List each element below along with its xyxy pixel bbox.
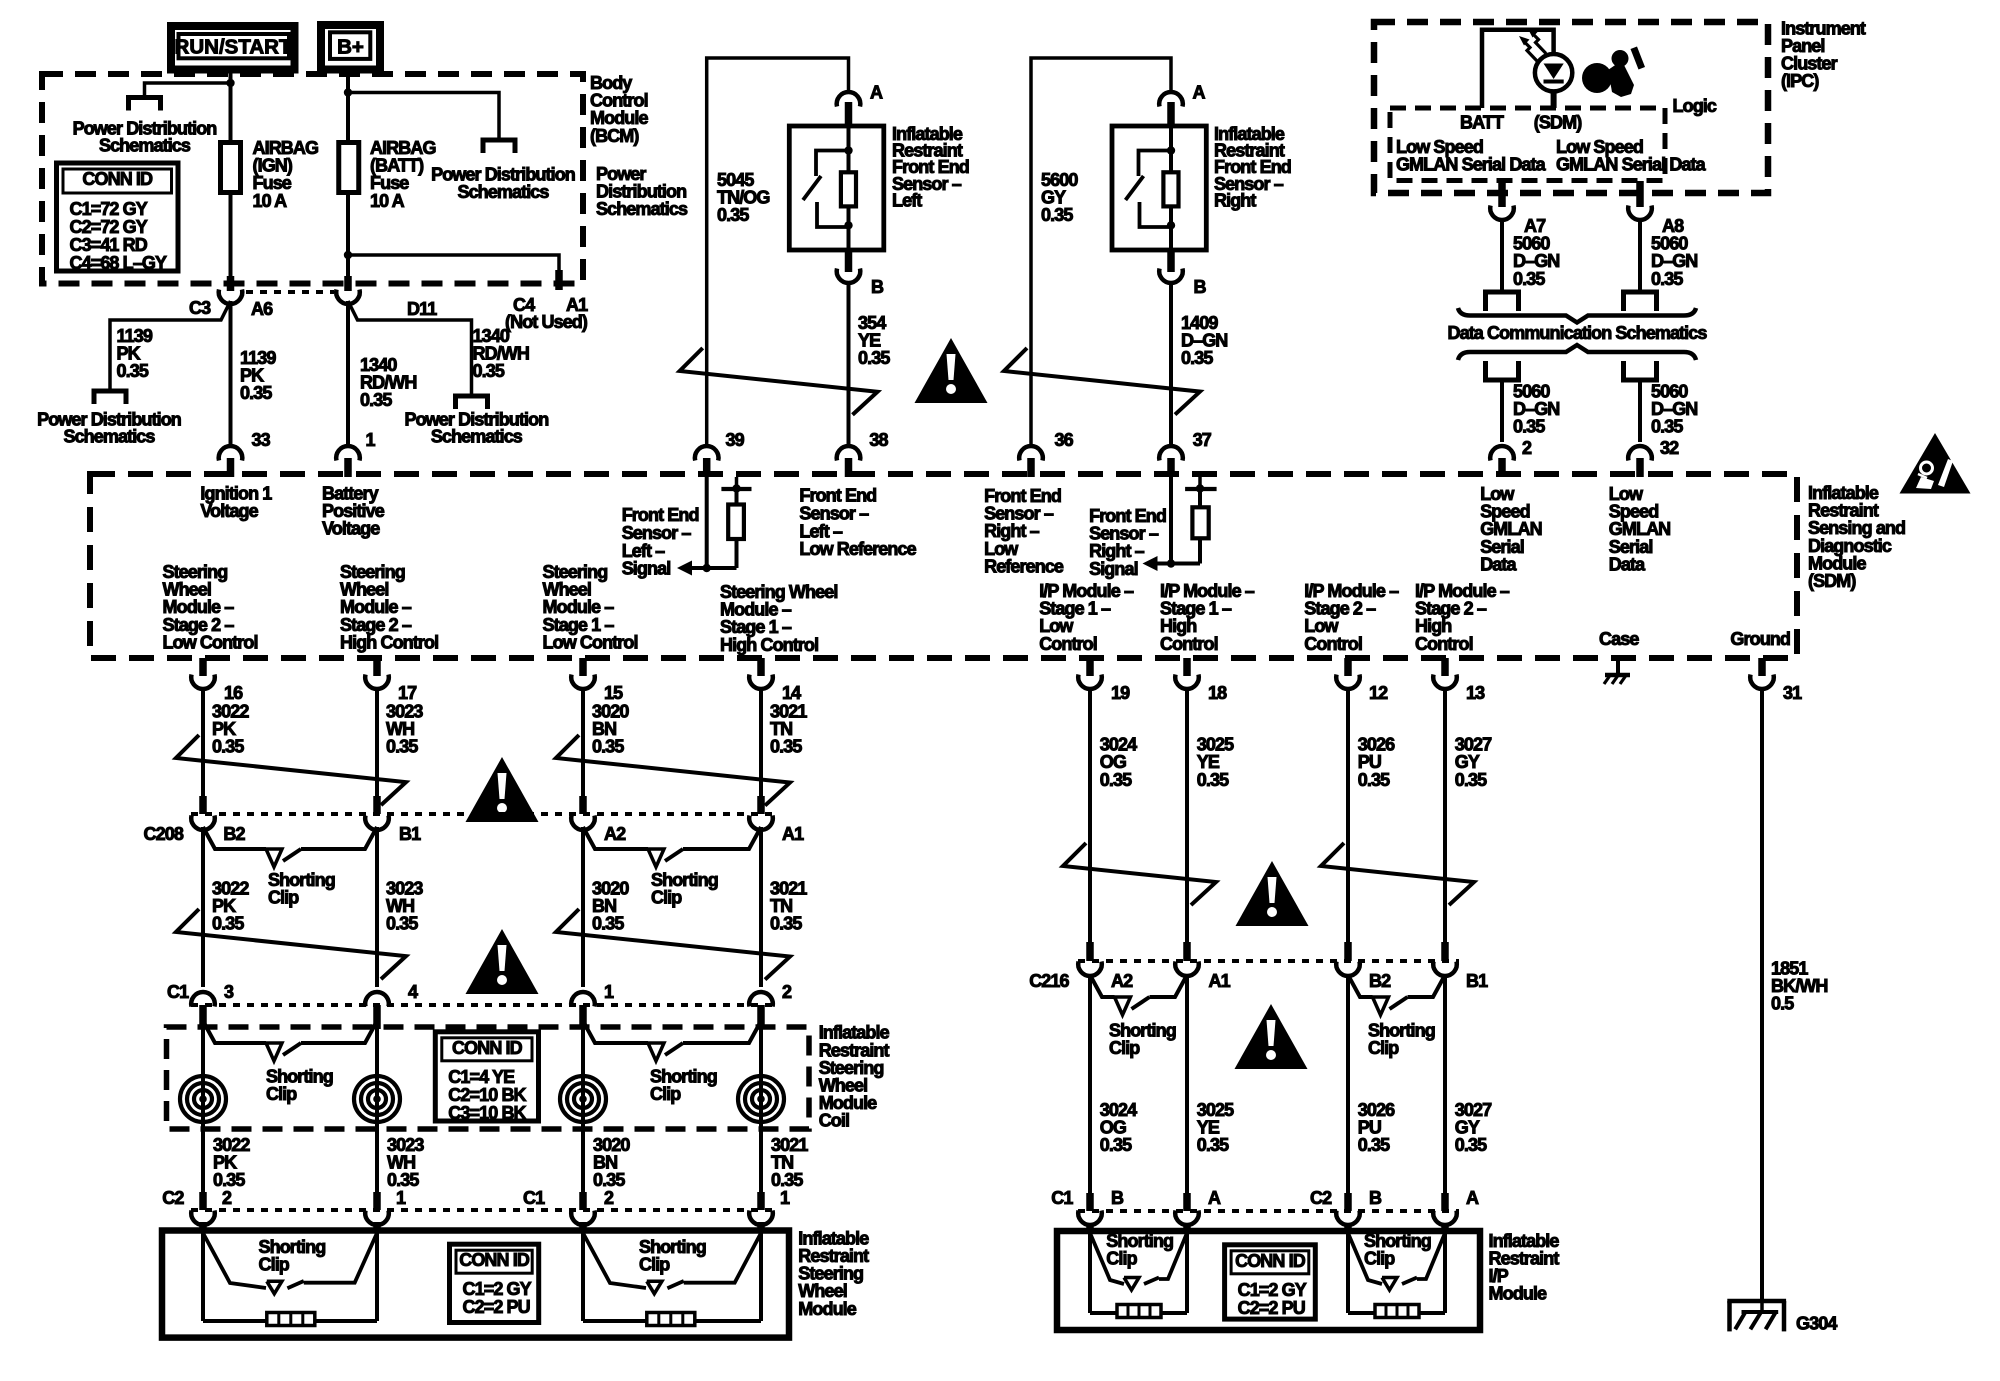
wire 3027 GY from SDM — [1443, 689, 1447, 942]
svg-text:32: 32 — [1660, 438, 1679, 458]
node: ign feed junction — [226, 79, 234, 87]
svg-text:CONN ID: CONN ID — [459, 1250, 530, 1270]
svg-text:A: A — [1193, 82, 1206, 102]
svg-text:B: B — [871, 277, 884, 297]
wire coil wire 2 through coil — [375, 1028, 379, 1192]
wire 3022 PK from SDM — [201, 689, 205, 796]
wire: B+ to fuse — [346, 66, 350, 143]
cut symbols I/P — [1063, 843, 1216, 905]
IPC pin A7 — [1498, 181, 1506, 207]
connector D11 — [344, 276, 352, 291]
svg-text:31: 31 — [1783, 683, 1802, 703]
I/P squib circuit left pair — [1088, 1233, 1092, 1313]
SDM pin 13 connector — [1441, 658, 1449, 676]
warning triangle (sensors) — [915, 338, 988, 403]
svg-text:37: 37 — [1193, 430, 1212, 450]
svg-text:18: 18 — [1208, 683, 1227, 703]
wire 3027 GY below C216 — [1443, 974, 1447, 1193]
front end sensor left wiring — [707, 58, 849, 446]
connector I/P pin C1-B — [1086, 1193, 1094, 1211]
connector C216 pin A2 — [1086, 942, 1094, 961]
data communication braces — [1458, 308, 1696, 323]
svg-text:2: 2 — [782, 982, 792, 1002]
svg-text:3: 3 — [224, 982, 234, 1002]
svg-text:Logic: Logic — [1673, 96, 1717, 116]
svg-text:CONN ID: CONN ID — [1235, 1251, 1306, 1271]
wire 3023 WH from SDM — [375, 689, 379, 796]
wire: branch to C4 (not used) — [348, 255, 559, 272]
fuse AIRBAG (BATT) 10A — [339, 143, 359, 193]
svg-text:A2: A2 — [604, 824, 626, 844]
connector A (left sensor) — [837, 92, 861, 106]
wire 3021 TN from SDM — [759, 689, 763, 796]
IPC pin A8 — [1636, 181, 1644, 207]
off-page: power distribution (1340) — [456, 396, 488, 409]
connector C208 pin B1 — [373, 796, 381, 814]
shorting clip (C208 right pair) — [583, 827, 648, 849]
svg-text:BATT: BATT — [1460, 113, 1504, 133]
connector C1 pin 1 — [571, 992, 595, 1006]
pin C4/A1 stub — [555, 270, 563, 290]
svg-text:CONN ID: CONN ID — [82, 169, 153, 189]
svg-text:39: 39 — [726, 430, 745, 450]
svg-text:CONN ID: CONN ID — [452, 1038, 523, 1058]
warning triangle (SWM upper) — [466, 757, 539, 822]
connector C208 pin B2 — [199, 796, 207, 814]
cut symbol (left sensor pair) — [680, 348, 878, 415]
shorting clip (C208 left pair) — [203, 827, 266, 849]
svg-text:A: A — [1208, 1188, 1221, 1208]
SDM pin 14 connector — [757, 658, 765, 676]
connector C216 pin B1 — [1441, 942, 1449, 961]
wire 1139 PK to SDM pin 33 — [229, 301, 233, 446]
shorting clip (I/P left) — [1090, 1233, 1124, 1284]
CONN ID table (I/P) — [1225, 1245, 1316, 1319]
SWM squib circuit left pair — [201, 1233, 205, 1321]
svg-text:16: 16 — [224, 683, 243, 703]
front end sensor right wiring — [1031, 58, 1171, 446]
svg-text:D11: D11 — [407, 299, 437, 319]
off-page connector: power distribution schematics (BCM right) — [483, 140, 515, 153]
svg-text:C216: C216 — [1029, 971, 1069, 991]
SDM pin 19 connector — [1086, 658, 1094, 676]
sensor B1 Inflatable Restraint Front End Sensor Left — [789, 126, 884, 250]
svg-text:A: A — [1466, 1188, 1479, 1208]
wire 3021 TN below C208 — [759, 827, 763, 987]
shorting clip (coil left pair) — [203, 1021, 266, 1043]
svg-text:A6: A6 — [251, 299, 273, 319]
SDM pin 16 connector — [199, 658, 207, 676]
connector C208 pin A1 — [757, 796, 765, 814]
svg-text:12: 12 — [1369, 683, 1388, 703]
wire 3025 YE from SDM — [1185, 689, 1189, 942]
clockspring coil L2 — [354, 1076, 400, 1122]
wire coil wire 3 through coil — [581, 1028, 585, 1192]
svg-text:Ground: Ground — [1730, 629, 1790, 649]
svg-text:C2: C2 — [162, 1188, 184, 1208]
svg-text:2: 2 — [222, 1188, 232, 1208]
svg-text:B: B — [1111, 1188, 1124, 1208]
svg-text:C3: C3 — [189, 298, 211, 318]
svg-text:15: 15 — [604, 683, 623, 703]
wire: branch to power distribution (right) — [348, 93, 499, 141]
cut symbols SWM lower — [176, 909, 406, 979]
svg-text:1: 1 — [780, 1188, 790, 1208]
wire 1409 D-GN to pin 37 — [1169, 283, 1173, 446]
svg-text:(Not Used): (Not Used) — [505, 312, 588, 332]
connector C208 row — [191, 812, 776, 816]
svg-text:19: 19 — [1111, 683, 1130, 703]
svg-text:RUN/START: RUN/START — [175, 35, 292, 58]
svg-text:B1: B1 — [399, 824, 421, 844]
node: batt feed junction — [344, 88, 352, 96]
svg-text:C1=2 GYC2=2 PU: C1=2 GYC2=2 PU — [1238, 1280, 1307, 1318]
wire 3026 PU from SDM — [1346, 689, 1350, 942]
sensor B2 Inflatable Restraint Front End Sensor Right — [1112, 126, 1206, 250]
svg-text:36: 36 — [1055, 430, 1074, 450]
wire BATT to lamp — [1482, 30, 1554, 108]
wire: RUN/START to fuse — [229, 66, 233, 143]
wire coil wire 4 through coil — [759, 1028, 763, 1192]
connector B (left sensor) — [845, 250, 853, 272]
wire 3020 BN from SDM — [581, 689, 585, 796]
connector SWM pin C1-2 — [579, 1192, 587, 1210]
svg-text:G304: G304 — [1796, 1314, 1837, 1334]
wire 3023 WH below C208 — [375, 827, 379, 987]
wire: fuse to C3 — [229, 193, 233, 277]
clockspring coil L3 — [560, 1076, 606, 1122]
power feed B+ — [321, 25, 380, 70]
connector C216 pin B2 — [1344, 942, 1352, 961]
shorting clip (coil right pair) — [583, 1021, 648, 1043]
CONN ID table (SWM) — [450, 1244, 539, 1322]
svg-text:Case: Case — [1599, 629, 1639, 649]
off-page: power distribution (1139) — [94, 391, 126, 404]
resistor (left sensor) — [841, 172, 856, 206]
svg-text:C1: C1 — [523, 1188, 545, 1208]
connector C2 row (module) — [191, 1208, 776, 1212]
svg-text:A2: A2 — [1111, 971, 1133, 991]
svg-text:C1: C1 — [167, 982, 189, 1002]
connector C208 pin A2 — [579, 796, 587, 814]
SDM box (Inflatable Restraint Sensing and Diagnostic Module) — [90, 474, 1797, 658]
svg-text:B2: B2 — [223, 824, 245, 844]
airbag icon (SDM indicator) — [1582, 63, 1612, 93]
svg-text:C1=2 GYC2=2 PU: C1=2 GYC2=2 PU — [463, 1279, 532, 1317]
svg-text:33: 33 — [252, 430, 271, 450]
resistor (right sensor) — [1163, 172, 1178, 206]
Logic box — [1390, 108, 1665, 181]
connector B (right sensor) — [1167, 250, 1175, 272]
wire 354 YE to pin 38 — [847, 283, 851, 446]
connector I/P pin C2-A — [1441, 1193, 1449, 1211]
wire 3024 OG below C216 — [1088, 974, 1092, 1193]
svg-text:1: 1 — [366, 430, 376, 450]
cut symbol (right sensor pair) — [1004, 348, 1200, 415]
wire 1340 RD/WH right branch — [348, 301, 472, 396]
lamp arrows — [1524, 42, 1538, 62]
wire coil wire 1 through coil — [201, 1028, 205, 1192]
cut symbols SWM upper — [176, 735, 406, 805]
svg-text:17: 17 — [398, 683, 417, 703]
connector C3/A6 — [227, 276, 235, 291]
connector C216 row — [1078, 959, 1459, 963]
connector B/A row (I/P module) — [1078, 1209, 1459, 1213]
shorting clip (C216 right pair) — [1348, 975, 1373, 997]
SIR caution triangle — [1900, 433, 1971, 494]
wire 1139 PK left branch — [110, 301, 231, 391]
wire 3024 OG from SDM — [1088, 689, 1092, 942]
wire: fuse to D11 — [346, 193, 350, 277]
warning triangle (I/P lower) — [1235, 1004, 1308, 1069]
wire 3026 PU below C216 — [1346, 974, 1350, 1193]
svg-text:B: B — [1369, 1188, 1382, 1208]
warning triangle (I/P upper) — [1236, 861, 1309, 926]
connector C216 pin A1 — [1183, 942, 1191, 961]
svg-text:1: 1 — [604, 982, 614, 1002]
SWM squib circuit right pair — [581, 1233, 585, 1321]
svg-text:2: 2 — [604, 1188, 614, 1208]
svg-text:C208: C208 — [144, 824, 184, 844]
connector I/P pin C1-A — [1183, 1193, 1191, 1211]
wire: branch to power distribution — [145, 83, 231, 98]
svg-text:4: 4 — [408, 982, 418, 1002]
internal pull-up right — [1169, 477, 1173, 564]
SDM pin 2 connector — [1490, 446, 1514, 460]
connector SWM pin C1-1 — [757, 1192, 765, 1210]
clockspring coil L1 — [180, 1076, 226, 1122]
CONN ID table (coil) — [435, 1032, 538, 1121]
off-page bracket A8 — [1624, 292, 1657, 311]
shorting clip (SWM left) — [203, 1233, 266, 1288]
svg-text:14: 14 — [782, 683, 801, 703]
svg-text:A1: A1 — [1209, 971, 1231, 991]
connector C1 pin 2 — [749, 992, 773, 1006]
wire 3025 YE below C216 — [1185, 974, 1189, 1193]
shorting clip (I/P right) — [1348, 1233, 1382, 1284]
connector C1 row (coil) — [191, 1003, 776, 1007]
IPC box (Instrument Panel Cluster) — [1374, 22, 1768, 193]
shorting clip (SWM right) — [583, 1233, 646, 1288]
SDM pin 18 connector — [1183, 658, 1191, 676]
connector C1 pin 4 — [365, 992, 389, 1006]
svg-text:B2: B2 — [1369, 971, 1391, 991]
warning triangle (SWM lower) — [466, 929, 539, 994]
connector A (right sensor) — [1159, 92, 1183, 106]
off-page bracket A7 — [1486, 292, 1519, 311]
SDM pin 31 connector — [1758, 658, 1766, 676]
ground G304 — [1727, 1299, 1786, 1304]
switch contact (right sensor) — [1139, 151, 1172, 177]
coil box (Inflatable Restraint Steering Wheel Module Coil) — [167, 1027, 810, 1129]
wire 1851 BK/WH ground — [1760, 689, 1764, 1301]
connector in-line dots — [246, 290, 334, 294]
svg-text:1: 1 — [396, 1188, 406, 1208]
wire 1340 RD/WH to SDM pin 1 — [346, 301, 350, 446]
BCM box (Body Control Module) — [42, 74, 583, 284]
svg-text:(SDM): (SDM) — [1534, 113, 1582, 133]
connector C1 pin 3 — [191, 992, 215, 1006]
switch contact (left sensor) — [816, 151, 849, 177]
SDM pin 17 connector — [373, 658, 381, 676]
airbag warning lamp (LED) — [1535, 54, 1572, 91]
off-page connector: power distribution schematics (left) — [129, 98, 161, 111]
svg-text:C1: C1 — [1051, 1188, 1073, 1208]
bracket to SDM A7 — [1486, 361, 1519, 380]
connector SWM pin C2-1 — [373, 1192, 381, 1210]
connector I/P pin C2-B — [1344, 1193, 1352, 1211]
svg-text:38: 38 — [869, 430, 888, 450]
SDM pin 32 connector — [1628, 446, 1652, 460]
clockspring coil L4 — [738, 1076, 784, 1122]
svg-text:B: B — [1194, 277, 1207, 297]
I/P module box — [1057, 1231, 1480, 1330]
svg-text:Data Communication Schematics: Data Communication Schematics — [1448, 323, 1708, 343]
svg-text:C2: C2 — [1310, 1188, 1332, 1208]
internal pull-up left — [705, 477, 709, 568]
shorting clip (C216 left pair) — [1090, 975, 1115, 997]
connector SWM pin C2-2 — [199, 1192, 207, 1210]
svg-text:A: A — [870, 82, 883, 102]
SDM pin 12 connector — [1344, 658, 1352, 676]
wire 3020 BN below C208 — [581, 827, 585, 987]
svg-text:B1: B1 — [1466, 971, 1488, 991]
svg-text:2: 2 — [1522, 438, 1532, 458]
svg-text:B+: B+ — [337, 35, 364, 58]
node: C4 branch junction — [344, 251, 352, 259]
steering wheel module box — [162, 1231, 789, 1338]
fuse AIRBAG (IGN) 10A — [221, 143, 241, 193]
CONN ID table BCM — [57, 163, 179, 271]
wire 3022 PK below C208 — [201, 827, 205, 987]
SDM pin 15 connector — [579, 658, 587, 676]
I/P squib circuit right pair — [1346, 1233, 1350, 1313]
svg-text:BatteryPositiveVoltage: BatteryPositiveVoltage — [322, 483, 385, 538]
bracket to SDM A8 — [1624, 361, 1657, 380]
power feed RUN/START — [171, 26, 295, 70]
svg-text:13: 13 — [1466, 683, 1485, 703]
svg-text:A1: A1 — [782, 824, 804, 844]
